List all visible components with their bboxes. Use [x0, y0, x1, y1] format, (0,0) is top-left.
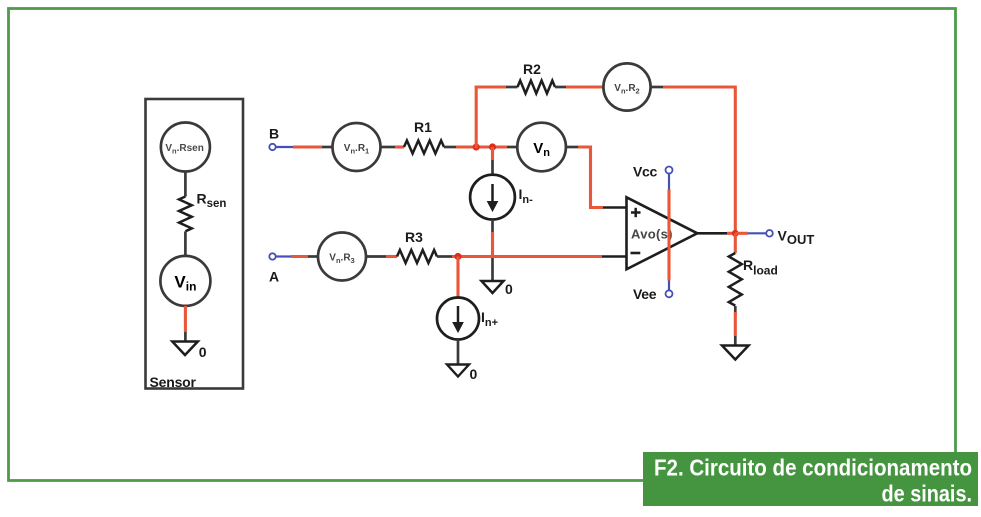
svg-text:R2: R2: [523, 61, 541, 77]
wire orange up to R2 row: [475, 86, 478, 149]
wire lead: [734, 306, 737, 316]
wire lead: [381, 146, 396, 149]
resistor Rsen: [179, 191, 226, 232]
resistor R1: [404, 119, 444, 154]
sensor box: [146, 99, 244, 389]
wire orange to ground: [734, 312, 737, 336]
svg-text:0: 0: [505, 281, 513, 297]
svg-text:Vcc: Vcc: [633, 163, 658, 179]
noise source Vn.Rsen: [161, 123, 210, 172]
svg-text:Vee: Vee: [633, 286, 657, 302]
wire lead: [366, 255, 386, 258]
node VOUT terminal: [766, 228, 814, 248]
wire lead plus stub: [603, 206, 627, 209]
wire A blue: [276, 255, 291, 257]
Vee terminal: [633, 286, 673, 302]
resistor Rload: [729, 253, 778, 306]
wire lead: [734, 336, 737, 346]
svg-text:Sensor: Sensor: [150, 374, 197, 390]
wire lead: [506, 86, 518, 89]
wire orange down to In+: [456, 257, 459, 298]
wire orange to minus stub: [452, 255, 602, 258]
current source In+: [437, 298, 498, 340]
wire orange In- upper: [491, 147, 494, 160]
wire orange: [386, 255, 397, 258]
wire B orange: [293, 145, 322, 148]
wire lead: [491, 160, 494, 175]
resistor R2: [518, 61, 555, 94]
wire lead: [566, 146, 578, 149]
svg-text:R3: R3: [405, 229, 423, 245]
wire orange crossing A row: [491, 232, 494, 257]
wire lead to ground: [491, 257, 494, 282]
caption box: [643, 452, 978, 507]
svg-text:0: 0: [470, 366, 478, 382]
resistor R3: [397, 229, 437, 263]
wire output lead (dark then orange): [697, 232, 727, 235]
node junction In+ branch: [454, 253, 461, 260]
noise source Vn.R3: [318, 233, 366, 281]
wire lead: [308, 255, 318, 258]
wire orange R2 row: [475, 85, 506, 88]
wire (Vin to ground, orange): [184, 306, 187, 332]
wire orange: [395, 145, 404, 148]
node A terminal: [269, 253, 279, 284]
wire lead: [651, 86, 663, 89]
noise source Vn.R1: [333, 123, 381, 171]
noise source Vn: [517, 123, 566, 172]
wire output to VOUT terminal (orange then blue): [735, 232, 748, 235]
wire orange to plus input: [578, 147, 603, 208]
wire (Rsen to Vin): [184, 231, 187, 255]
current source In-: [470, 175, 533, 220]
wire A orange: [291, 255, 308, 258]
svg-text:Vn.Rsen: Vn.Rsen: [165, 143, 204, 156]
wire Vee blue: [668, 281, 670, 291]
wire lead: [322, 146, 333, 149]
noise source Vn.R2: [603, 63, 650, 110]
ground (Rload): [722, 346, 749, 360]
svg-text:B: B: [269, 126, 279, 142]
wire lead: [555, 86, 566, 89]
wire (Vn.Rsen to Rsen): [184, 172, 187, 197]
wire orange to Vn (with dark lead): [456, 145, 507, 148]
ground 0 (In+): [447, 365, 478, 383]
source Vin: [160, 256, 210, 306]
svg-text:F2. Circuito de condicionament: F2. Circuito de condicionamento: [654, 455, 972, 481]
node B terminal: [269, 126, 279, 151]
op-amp U1 Avo(s): [627, 197, 698, 269]
wire B blue: [276, 146, 293, 148]
wire lead: [437, 255, 452, 258]
node junction R2 branch: [473, 143, 480, 150]
wire orange to right corner: [663, 85, 735, 88]
svg-text:A: A: [269, 269, 279, 285]
Vcc terminal: [633, 163, 673, 179]
svg-text:Avo(s): Avo(s): [631, 227, 673, 242]
wire lead minus stub: [602, 255, 627, 258]
wire lead: [457, 340, 460, 365]
ground 0 (sensor): [172, 342, 207, 361]
wire orange through op-amp: [667, 190, 670, 281]
svg-text:0: 0: [199, 344, 207, 360]
wire orange down right side: [734, 86, 737, 234]
wire Vcc blue: [668, 174, 670, 190]
node output junction: [732, 230, 739, 237]
wire orange above Rload: [734, 233, 737, 253]
wire lead: [444, 146, 456, 149]
wire orange: [566, 85, 603, 88]
node junction In- branch: [489, 143, 496, 150]
svg-text:de sinais.: de sinais.: [882, 481, 973, 507]
ground 0 (In-): [482, 281, 514, 297]
wire lead: [491, 220, 494, 233]
svg-text:R1: R1: [414, 119, 432, 135]
